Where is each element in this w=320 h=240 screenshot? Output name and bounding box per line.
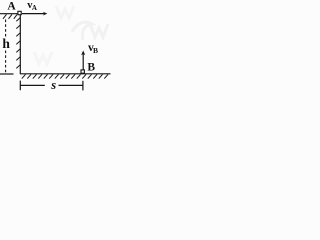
svg-text:A: A — [7, 1, 16, 13]
svg-text:A: A — [32, 4, 37, 12]
svg-text:h: h — [2, 36, 10, 51]
svg-text:B: B — [87, 62, 95, 74]
svg-text:s: s — [50, 78, 56, 92]
svg-text:B: B — [93, 46, 98, 55]
